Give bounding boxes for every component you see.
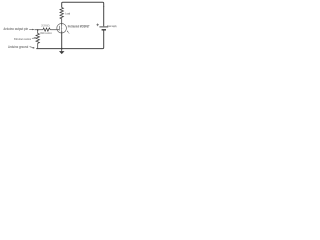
arrow from pull-down label to R2 (32, 37, 34, 39)
battery BT1 plus sign (96, 24, 99, 27)
arrow from ground label to bottom rail (30, 46, 33, 49)
svg-text:Power supply: Power supply (107, 24, 116, 28)
wire: gate wire from arrow to gate resistor (35, 29, 44, 31)
ground symbol (61, 49, 63, 52)
wire: right rail down to battery top (103, 7, 105, 27)
wire: source from circle down to ground rail (61, 32, 63, 49)
transistor Q1 N-channel MOSFET (circle body) (57, 23, 67, 33)
wire: top rail from load branch to power branch (62, 2, 104, 7)
svg-text:10kΩ resistor: 10kΩ resistor (40, 31, 53, 35)
wire: gate resistor to Q1 gate (50, 29, 59, 31)
svg-text:Pull-down resistor: Pull-down resistor (14, 37, 32, 41)
resistor R1 (horizontal zigzag, gate series) (43, 28, 50, 31)
svg-text:Load: Load (65, 12, 70, 16)
resistor R-load (vertical zigzag) (60, 8, 63, 24)
svg-text:220Ω: 220Ω (41, 23, 51, 27)
node: ground junction (61, 48, 63, 50)
resistor R2 pull-down (vertical zigzag) (36, 30, 39, 49)
Q1 internals: gate bar and channel bar (58, 26, 60, 31)
battery BT1 plates (99, 26, 108, 28)
wire: right rail battery bottom to bottom rail (98, 31, 104, 49)
svg-text:N-channel MOSFET: N-channel MOSFET (68, 25, 90, 29)
wire: bottom ground rail (36, 48, 98, 50)
svg-text:Arduino output pin: Arduino output pin (3, 27, 28, 31)
label leader arrow to Q1 (68, 32, 70, 34)
node: gate junction (37, 29, 39, 31)
wire: drain stub into circle (61, 23, 63, 25)
svg-text:Arduino ground: Arduino ground (8, 45, 28, 49)
arrow from output-pin label to gate wire (29, 29, 32, 31)
